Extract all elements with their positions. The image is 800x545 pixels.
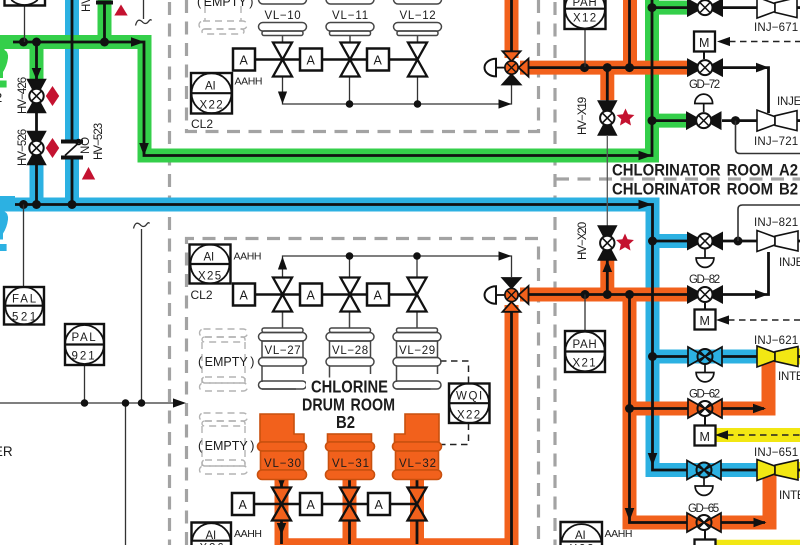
drum EMPTY A2 dashed [199, 6, 247, 34]
svg-text:AAHH: AAHH [234, 251, 262, 263]
svg-text:( EMPTY ): ( EMPTY ) [198, 355, 254, 369]
arrow VL-30 riser down lower [277, 523, 287, 535]
wire tap to top-left instrument [24, 5, 26, 42]
squiggle break symbol mid [134, 223, 150, 229]
junction dot green main instrument tap [19, 38, 28, 47]
svg-text:VL−11: VL−11 [332, 10, 368, 22]
valve VL-31 outlet orange [340, 488, 359, 521]
valve HV-X19 [598, 101, 616, 226]
valve VL-32 outlet orange [408, 488, 427, 521]
svg-text:HV−X19: HV−X19 [577, 97, 589, 135]
wire INJ-721 water line down [736, 121, 800, 154]
wire green stub center line top [103, 3, 106, 43]
valve HV-523 line blind [61, 139, 83, 157]
drum VL-28 [326, 311, 374, 389]
arrow M row5 dashed left [716, 315, 729, 324]
instrument AI X22 [191, 73, 232, 114]
svg-text:M: M [700, 430, 710, 444]
svg-text:VL−31: VL−31 [332, 458, 369, 470]
arrow VL-30 riser down [277, 476, 287, 488]
svg-text:X22: X22 [457, 410, 480, 422]
A box B2 2 [300, 284, 322, 306]
valve VL-12 outlet [408, 43, 427, 77]
drum VL-10 [259, 0, 307, 43]
arrow GD-72 outlet right [756, 63, 769, 73]
wire green stub to top edge HV [98, 0, 112, 42]
wire orange GD-65 outlet to INJ-651 [720, 472, 770, 523]
wire A2 VL-12 drop [417, 77, 419, 105]
wire orange GD-62 feed center [630, 407, 691, 410]
wire M row5 stem [704, 303, 706, 310]
wire row4 valve to INJ-821 [722, 240, 757, 243]
M box GD-72 [694, 32, 715, 52]
wire blue branch to INJ-821 valve [652, 234, 688, 248]
instrument PAL 921 [65, 324, 104, 365]
svg-text:AI: AI [204, 252, 214, 264]
wire B2 VL-28 riser [349, 256, 351, 278]
wire M row7 stem [704, 416, 706, 426]
wire yellow M control GD-62 [716, 428, 800, 442]
wire INJ-621 outlet [796, 355, 800, 358]
svg-text:A: A [307, 54, 316, 68]
wire blue vertical above HV-523 under green [65, 0, 79, 140]
wire blue branch INJ-821 center [652, 240, 688, 243]
wire orange B2 header center [520, 293, 689, 296]
svg-text:CL2: CL2 [191, 288, 213, 302]
M box GD-65 cut [695, 540, 716, 545]
svg-text:A: A [375, 498, 384, 512]
wire GD-65 outlet center [720, 521, 765, 524]
red star HV-X19 [617, 109, 635, 126]
wire green branch to INJ-671 valve [652, 1, 688, 15]
valve VL-28 inlet [341, 278, 360, 312]
wire between HV-426 and HV-526 [35, 112, 38, 132]
svg-text:AAHH: AAHH [234, 528, 262, 540]
svg-text:GD−82: GD−82 [689, 274, 720, 286]
wire blue main header path [0, 205, 757, 471]
arrow GD-82 outlet right [755, 290, 768, 300]
drum VL-29 [393, 311, 441, 389]
svg-text:VL−32: VL−32 [399, 458, 436, 470]
svg-text:INTE: INTE [779, 490, 800, 502]
svg-text:A: A [239, 498, 248, 512]
wire orange stub above HV-X19 [600, 68, 614, 100]
svg-text:HV−426: HV−426 [17, 77, 29, 114]
wire row8 valve to INJ-651 [720, 469, 758, 472]
svg-text:521: 521 [12, 312, 36, 324]
wire orange chlorinator B2 header [520, 288, 689, 302]
svg-text:HV−523: HV−523 [93, 123, 105, 160]
A box B2 bottom 2 [300, 493, 322, 515]
drum EMPTY B2 upper dashed [200, 329, 248, 391]
wire orange GD-62 outlet to INJ-621 [721, 358, 769, 409]
svg-text:921: 921 [72, 351, 95, 363]
valve VL-30 outlet orange [272, 488, 291, 521]
instrument FAL 521 [4, 287, 44, 325]
wire orange 3-way B2 downcomer center [510, 305, 513, 545]
wire signal line down from y403 to bottom [125, 403, 127, 545]
wire blue branch to INJ-621 valve [652, 350, 757, 364]
svg-text:FAL: FAL [12, 294, 37, 306]
valve row4 INJ-821 water w dome below [687, 232, 723, 268]
arrow blue main down at corner [648, 453, 658, 466]
instrument top-left cut [5, 0, 46, 6]
valve VL-10 outlet [273, 43, 292, 77]
svg-text:CHLORINATOR ROOM B2: CHLORINATOR ROOM B2 [612, 180, 798, 199]
junction dot orange B2 header GD vertical [625, 290, 634, 299]
svg-text:NO: NO [80, 137, 92, 154]
svg-text:AI: AI [206, 530, 216, 542]
squiggle break symbol top [136, 20, 152, 26]
junction dot blue main FAL tap [19, 200, 28, 209]
room A2 dashed boundary left and bottom [187, 0, 539, 132]
valve row8 INJ-651 cyan w dome below [687, 461, 721, 496]
WALLS [170, 0, 800, 545]
wire blue branch INJ-621 center [652, 355, 688, 358]
junction dot B2 header VL-29 [413, 252, 421, 260]
wire B2 bottom valve row line [241, 503, 417, 505]
arrow signal y403 into wall [173, 398, 186, 407]
red triangle top [114, 5, 127, 16]
wire blue vert center below HV-523 [71, 158, 74, 205]
injector INJ-821 [757, 231, 798, 252]
valve row3 INJ-721 water w dome [686, 94, 722, 130]
svg-text:INJ−821: INJ−821 [754, 217, 798, 229]
wire row6 valve to INJ-621 [721, 355, 758, 358]
arrow B2 header right into 3-way [499, 251, 512, 260]
wire orange below HV-X20 to B2 header [600, 258, 614, 295]
drum VL-30 orange [258, 414, 307, 480]
wire dashed M control row2 [729, 41, 800, 43]
junction dot signal squiggle [138, 399, 146, 407]
valve VL-29 inlet [408, 278, 427, 312]
svg-text:VL−27: VL−27 [265, 345, 301, 357]
junction dot signal mid [122, 399, 130, 407]
wire B2 mid valve row line [244, 293, 417, 295]
svg-text:GD−65: GD−65 [688, 503, 719, 515]
valve GD-82 [687, 285, 723, 304]
svg-text:A: A [374, 289, 383, 303]
wire blue main center line [13, 205, 688, 471]
wire orange riser VL-30 [275, 479, 289, 540]
wire INJ-821 water line up [738, 205, 800, 241]
wire green main header path [0, 0, 652, 156]
wire HV-X19 stub center [606, 68, 609, 101]
equipment green ejector left edge [0, 47, 8, 88]
junction dot A2 header VL-12 [414, 100, 422, 108]
svg-text:B2: B2 [336, 412, 355, 432]
wire green branch INJ-721 center [652, 119, 688, 122]
junction dot blue main HV-526 [32, 200, 41, 209]
wire dashed WQI tap to VL-29 [440, 361, 469, 383]
red diamond HV-526 [46, 138, 59, 158]
wire orange top vertical center [628, 0, 631, 68]
svg-text:HV−X20: HV−X20 [577, 222, 589, 260]
room label CHLORINE DRUM ROOM B2 [296, 377, 402, 433]
injector INJ-621 yellow [757, 346, 798, 367]
svg-text:AI: AI [575, 530, 585, 542]
wire PAH-X21 tap [584, 295, 586, 332]
wire dashed WQI tap to VL-32 [440, 424, 469, 445]
wire green branch INJ-671 center [652, 6, 688, 9]
wire B2 VL-29 riser [416, 256, 418, 278]
wire GD-62 outlet center [721, 407, 764, 410]
M box GD-62 [695, 426, 716, 446]
wire yellow INJ-651 outlet [795, 462, 800, 478]
wire row3 valve to INJ-721 [722, 119, 757, 122]
wire VL-30 riser center [280, 479, 283, 544]
junction dot A2 header VL-11 [346, 100, 354, 108]
junction dot signal PAL-921 [81, 399, 89, 407]
wire INJ-821 outlet [797, 240, 800, 243]
junction dot INJ-821 water line [734, 237, 743, 246]
wire yellow M control GD-65 [716, 540, 800, 545]
svg-text:A: A [240, 289, 249, 303]
svg-text:A: A [307, 289, 316, 303]
3-way valve B2 [485, 278, 529, 312]
valve GD-62 orange [688, 399, 722, 418]
arrow M row7 dashed left [715, 430, 728, 439]
wire orange chlorinator A2 header [520, 61, 688, 75]
room B2 dashed boundary left top right [187, 239, 539, 545]
instrument PAH X21 [565, 331, 605, 372]
svg-text:INJ−671: INJ−671 [754, 22, 798, 34]
svg-text:INJE: INJE [779, 257, 800, 269]
M box GD-82 [695, 310, 716, 330]
valve GD-72 [687, 58, 723, 77]
wire INJ-671 outlet [796, 6, 800, 9]
junction dot B2 header VL-28 [346, 252, 354, 260]
junction dot blue main HV-523 [68, 200, 77, 209]
A box B2 bottom 3 [368, 493, 390, 515]
drum EMPTY B2 lower dashed [200, 413, 248, 474]
A box B2 1 [233, 284, 255, 306]
instrument PAH X12 [565, 0, 606, 29]
wire M row9 stem [704, 530, 706, 540]
svg-text:INJ−651: INJ−651 [754, 447, 798, 459]
svg-text:WQI: WQI [456, 391, 482, 403]
wire blue vert center above HV-523 [71, 0, 74, 140]
wire VL-31 riser center [348, 479, 351, 544]
svg-text:PAH: PAH [573, 339, 597, 351]
3-way valve A2 [485, 51, 529, 84]
valve GD-65 orange [687, 513, 721, 532]
wire green branch to INJ-721 valve [652, 114, 688, 128]
wire dashed M control row5 [728, 319, 800, 321]
red triangle HV-523 [82, 167, 95, 180]
wire PAH-X12 tap [584, 29, 586, 67]
junction dot green main HV-426 branch [32, 38, 41, 47]
valve HV-X20 [598, 226, 616, 260]
svg-text:X12: X12 [573, 13, 596, 25]
svg-text:X25: X25 [198, 271, 221, 283]
drum VL-27 [259, 311, 307, 389]
svg-text:GD−72: GD−72 [689, 79, 720, 91]
A box A2 2 [300, 49, 322, 71]
svg-text:A: A [374, 54, 383, 68]
arrow green main down at corner [139, 143, 149, 156]
wire orange GD-62 feed branch [630, 402, 691, 416]
wire orange vertical to GD-62 GD-65 [630, 295, 689, 523]
wire INJ-721 outlet [796, 119, 800, 122]
red star HV-X20 [616, 234, 634, 251]
valve row1 INJ-671 isolation [687, 0, 723, 17]
wire squiggle line mid down to y403 [141, 229, 143, 403]
svg-text:AI: AI [205, 81, 215, 93]
valve VL-27 inlet [273, 278, 292, 312]
wire HV-426 branch center [35, 42, 38, 80]
svg-text:M: M [699, 36, 709, 50]
arrow orange GD-62 down at vertical [625, 508, 635, 521]
svg-text:VL−10: VL−10 [265, 10, 301, 22]
wire blue below HV-526 [30, 163, 44, 204]
wire GD-72 outlet line [722, 68, 769, 113]
svg-text:HV−526: HV−526 [17, 129, 29, 166]
svg-text:CHLORINATOR ROOM A2: CHLORINATOR ROOM A2 [612, 161, 798, 180]
svg-text:( EMPTY ): ( EMPTY ) [197, 0, 253, 9]
junction dot orange A2 header top vertical [625, 63, 634, 72]
arrow green main right at riser corner [639, 151, 653, 161]
wire orange B2 drum collection header bottom [275, 538, 512, 545]
arrow B2 header up from VL-27 valve [278, 257, 287, 270]
valve HV-526 [28, 132, 46, 165]
svg-text:−ER: −ER [0, 444, 13, 459]
svg-text:AAHH: AAHH [605, 528, 633, 540]
valve row6 INJ-621 cyan w dome below [688, 347, 722, 382]
wire PAL-921 to signal line [84, 365, 86, 403]
wire GD-82 outlet line [722, 252, 769, 295]
instrument AI bottom-left cut [192, 523, 232, 545]
drum VL-31 orange [326, 434, 375, 480]
arrow M row2 dashed left [717, 37, 730, 46]
junction dot blue riser INJ-821 branch [648, 237, 657, 246]
injector INJ-671 [757, 0, 797, 18]
wire below HV-526 to blue main [35, 164, 38, 205]
svg-text:GD−62: GD−62 [689, 389, 720, 401]
wire signal line y403 [0, 402, 184, 404]
svg-text:( EMPTY ): ( EMPTY ) [198, 439, 254, 453]
A box B2 3 [367, 284, 389, 306]
svg-text:PAL: PAL [72, 332, 97, 344]
wire row1 valve to INJ-671 [722, 6, 757, 9]
svg-text:M: M [700, 314, 710, 328]
drum VL-32 orange [393, 414, 442, 480]
junction dot orange B2 header HV-X20 [603, 290, 612, 299]
wire orange 3-way B2 down to drum header [505, 305, 519, 545]
junction dot orange B2 header PAH tap [581, 290, 590, 299]
instrument AI bottom-mid cut [561, 522, 603, 545]
arrow green main right at corner [131, 37, 145, 47]
wire dashed M control row7 [727, 434, 800, 436]
wire green main center line [13, 0, 652, 156]
wire squiggle top line [143, 0, 145, 19]
wire INJ-651 outlet [796, 469, 800, 472]
svg-text:INJE: INJE [777, 96, 800, 108]
junction dot orange A2 header PAH tap [580, 63, 589, 72]
svg-text:2: 2 [0, 90, 2, 105]
wire A2 VL-11 drop [349, 77, 351, 105]
svg-text:HV: HV [81, 0, 93, 12]
chlorinator room divider dashed y=179 [556, 177, 800, 180]
svg-text:CHLORINE: CHLORINE [311, 377, 388, 397]
wire B2 drum header [283, 256, 512, 278]
equipment blue ejector left edge [0, 196, 15, 251]
svg-text:VL−12: VL−12 [400, 10, 436, 22]
red diamond HV-426 [46, 86, 59, 106]
svg-text:VL−28: VL−28 [332, 345, 368, 357]
arrow GD-62 outlet right [753, 404, 766, 414]
wire A2 valve row line [244, 58, 417, 60]
svg-text:VL−30: VL−30 [264, 458, 301, 470]
svg-text:X21: X21 [573, 358, 596, 370]
junction dot orange A2 header HV-X19 [603, 63, 612, 72]
drum VL-11 [326, 0, 374, 43]
junction dot blue riser INJ-621 branch [648, 352, 657, 361]
wire blue below HV-523 [65, 158, 79, 204]
wire orange riser VL-31 [343, 479, 357, 540]
junction dot orange GD-62 feed [625, 404, 634, 413]
svg-text:CL2: CL2 [191, 117, 213, 131]
svg-text:A: A [240, 54, 249, 68]
wire orange A2 feed center [510, 0, 513, 58]
wire green branch to HV-426 [30, 42, 44, 80]
injector INJ-721 [757, 110, 797, 131]
wire A2 drum header [283, 77, 512, 105]
wire orange GD-62 GD-65 vertical center [630, 295, 689, 523]
junction dot green riser INJ-721 branch [648, 116, 657, 125]
valve HV-426 [28, 80, 46, 113]
A box A2 1 [233, 49, 255, 71]
wire flange bar top of green stub [96, 1, 113, 5]
junction dot green main top stub [100, 38, 109, 47]
wire VL-32 riser center [416, 479, 419, 544]
arrow A2 header right into 3-way [499, 99, 512, 108]
wire tap blue main to FAL-521 [23, 205, 25, 288]
wire orange A2 header center [520, 66, 688, 69]
svg-text:AAHH: AAHH [235, 76, 263, 88]
wire HV-X20 outlet center [606, 259, 609, 295]
wall dashed vertical x=555 [553, 2, 556, 545]
svg-text:X22: X22 [200, 100, 223, 112]
wire orange drum A2 feed vertical into 3-way [505, 0, 519, 58]
A box A2 3 [367, 49, 389, 71]
instrument AI X25 [190, 245, 231, 284]
wall dashed vertical x=169 [168, 2, 171, 545]
drum VL-12 [394, 0, 442, 43]
svg-text:INTE: INTE [778, 371, 800, 383]
svg-text:PAH: PAH [573, 0, 597, 9]
svg-text:INJ−721: INJ−721 [754, 136, 798, 148]
arrow blue main right at corner [639, 200, 653, 210]
svg-text:A: A [307, 498, 316, 512]
junction dot green riser INJ-671 branch [648, 3, 657, 12]
svg-text:INJ−621: INJ−621 [754, 335, 798, 347]
arrow A2 header down from VL-10 valve [278, 92, 287, 105]
svg-text:VL−29: VL−29 [399, 345, 435, 357]
wire orange riser VL-32 [410, 479, 424, 540]
wire orange vertical from top to A2 header [623, 0, 637, 68]
wire yellow INJ-621 outlet [795, 349, 800, 365]
instrument WQI X22 [449, 383, 490, 423]
valve VL-11 outlet [341, 43, 360, 77]
arrow GD-65 outlet right [754, 518, 767, 528]
injector INJ-651 yellow [757, 460, 798, 481]
arrow HV-426 branch down [32, 68, 42, 80]
junction dot INJ-721 water line [731, 116, 740, 125]
A box B2 bottom 1 [232, 493, 254, 515]
wire M row2 stem [703, 52, 705, 60]
arrow HV-X20 outlet up [603, 260, 613, 272]
